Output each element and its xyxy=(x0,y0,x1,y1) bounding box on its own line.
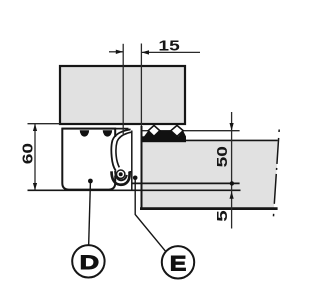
detail circle E xyxy=(162,246,194,278)
dim 15 left extension line xyxy=(122,44,124,134)
dim 60 top arrow xyxy=(33,124,37,131)
latch tongue inner edge xyxy=(116,132,131,167)
dim 60 dimension line xyxy=(34,124,36,191)
latch foot ledge xyxy=(129,171,132,173)
leader line E xyxy=(135,180,166,252)
door leaf profile (right gray block) xyxy=(142,141,279,209)
latch foot inner xyxy=(115,171,127,180)
hinge body screw dot 1 xyxy=(80,130,89,136)
gasket diamond 2 xyxy=(171,125,183,136)
hinge plate top line xyxy=(62,128,129,130)
leaf mid reference line (gasket midline) xyxy=(141,130,239,132)
leader E anchor dot xyxy=(133,176,138,181)
door leaf rebate line L1 xyxy=(132,182,240,184)
svg-text:60: 60 xyxy=(18,143,35,164)
hinge body screw dot 2 xyxy=(103,130,112,136)
dim 50 top arrow (down) xyxy=(230,123,234,131)
latch tongue outer edge xyxy=(111,129,130,170)
svg-text:E: E xyxy=(170,251,187,275)
gasket wedge between diamonds xyxy=(155,131,177,137)
dim 15 dimension line left part + arrow xyxy=(109,51,123,53)
latch foot xyxy=(112,171,130,184)
door leaf right break line (dash-dot) xyxy=(273,130,279,220)
latch pivot xyxy=(117,170,125,178)
extension line left of frame block (60-dim top) xyxy=(28,123,61,125)
dim 60 bottom arrow xyxy=(33,183,37,190)
door leaf top edge xyxy=(141,139,278,141)
svg-text:D: D xyxy=(80,252,99,273)
dim 5 arrow (up) xyxy=(230,191,234,199)
dim 50/5 junction dot xyxy=(230,181,234,185)
svg-text:50: 50 xyxy=(213,146,230,167)
gasket diamond 1 xyxy=(148,125,160,136)
svg-text:5: 5 xyxy=(214,210,231,222)
leader line D xyxy=(89,183,91,247)
svg-text:15: 15 xyxy=(158,36,180,53)
hinge body bottom dot (leader D anchor) xyxy=(88,179,93,184)
gasket bar xyxy=(142,136,186,142)
detail circle D xyxy=(72,245,104,277)
gasket right ramp xyxy=(178,131,186,137)
door edge strip left line xyxy=(131,131,133,191)
long bottom line L2 (60-dim bottom extension + rebate) xyxy=(28,189,241,191)
door face line / 15-dim right extension (x=141.4) xyxy=(140,44,142,129)
dim 50/5 vertical dimension line xyxy=(231,112,233,229)
dim 15 dimension line right part + arrow xyxy=(142,51,200,53)
frame head profile (top gray block) xyxy=(60,66,185,124)
gasket left ramp xyxy=(144,131,154,137)
hinge body xyxy=(62,129,115,190)
door leaf bottom edge xyxy=(140,207,278,210)
